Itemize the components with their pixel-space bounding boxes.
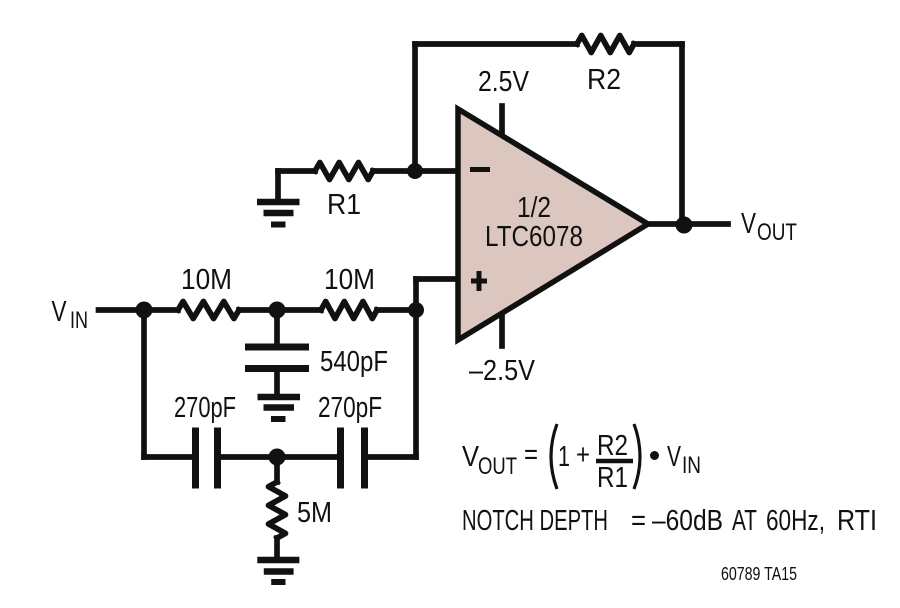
svg-text:270pF: 270pF (318, 392, 382, 424)
node A inverting input junction (407, 163, 423, 179)
ground for 540pF (258, 397, 301, 419)
wire 540pF to ground (274, 372, 280, 394)
node D middle top junction (269, 302, 286, 319)
capacitor C 270pF left plates (196, 428, 218, 489)
svg-text:V: V (667, 441, 681, 473)
node B output junction (676, 217, 693, 234)
label VIN input (52, 296, 89, 334)
wire bottom rail middle segment (221, 454, 337, 460)
wire negative supply pin (499, 312, 505, 346)
formula VOUT = (1 + R2/R1) * VIN (462, 424, 701, 494)
svg-text:V: V (52, 296, 68, 328)
formula right parenthesis (634, 424, 640, 489)
wire R1 left horizontal (278, 168, 315, 174)
resistor 10M second (321, 302, 377, 319)
ground for 5M (257, 560, 299, 582)
wire R1 ground stub (275, 171, 281, 199)
label NOTCH DEPTH (462, 505, 877, 537)
svg-text:10M: 10M (324, 264, 375, 296)
wire VIN node to first 10M (144, 307, 178, 313)
svg-text:10M: 10M (181, 264, 232, 296)
wire bottom node to 5M (274, 457, 280, 482)
wire middle node to second 10M (277, 307, 321, 313)
svg-text:+: + (576, 439, 590, 471)
wire plus branch vertical (413, 279, 419, 457)
wire feedback top horizontal left segment (415, 41, 577, 47)
wire second 10M to plus node (377, 307, 416, 313)
node E noninverting branch junction (408, 302, 424, 318)
label VOUT output (741, 208, 797, 246)
svg-text:540pF: 540pF (320, 346, 388, 378)
svg-text:IN: IN (70, 307, 88, 334)
formula left parenthesis (551, 424, 557, 489)
svg-text:RTI: RTI (837, 505, 877, 537)
svg-text:1: 1 (558, 441, 570, 473)
capacitor C 270pF right plates (341, 428, 365, 489)
resistor R2 (577, 36, 634, 53)
resistor 5M vertical (269, 482, 286, 538)
wire bottom rail left segment (144, 454, 192, 460)
svg-text:60789 TA15: 60789 TA15 (721, 563, 797, 584)
svg-text:R2: R2 (597, 430, 628, 462)
svg-text:5M: 5M (297, 497, 332, 529)
op-amp U1 1/2 LTC6078 (458, 109, 648, 340)
wire 5M to ground (274, 538, 280, 556)
wire left vertical from VIN node (141, 310, 147, 457)
svg-text:V: V (741, 208, 757, 240)
svg-text:IN: IN (682, 452, 701, 479)
resistor 10M first (178, 302, 239, 319)
op-amp plus input symbol (471, 271, 487, 291)
node C VIN junction (136, 302, 153, 319)
wire output to VOUT (648, 221, 728, 227)
svg-text:AT: AT (732, 505, 757, 537)
svg-text:V: V (462, 441, 480, 473)
wire VIN stub (99, 307, 145, 313)
svg-text:–60dB: –60dB (652, 505, 723, 537)
wire R1 to inverting input (373, 168, 458, 174)
svg-text:–2.5V: –2.5V (469, 355, 536, 387)
wire feedback right vertical down to output node (679, 44, 685, 224)
wire first 10M to middle node (239, 307, 277, 313)
capacitor C 540pF plates (245, 347, 309, 369)
svg-text:R1: R1 (327, 189, 361, 221)
svg-text:=: = (524, 439, 538, 471)
svg-text:60Hz,: 60Hz, (766, 505, 825, 537)
svg-text:1/2: 1/2 (517, 192, 551, 224)
wire feedback top horizontal right segment (634, 41, 682, 47)
resistor R1 (315, 163, 373, 180)
svg-text:270pF: 270pF (174, 392, 236, 424)
svg-text:R2: R2 (587, 64, 621, 96)
svg-text:LTC6078: LTC6078 (485, 221, 583, 253)
op-amp minus input symbol (470, 167, 490, 172)
wire positive supply pin (499, 106, 505, 138)
wire middle branch to 540pF (274, 310, 280, 344)
svg-text:OUT: OUT (478, 453, 517, 480)
node F bottom junction (269, 449, 286, 466)
svg-text:=: = (631, 505, 646, 537)
svg-text:NOTCH DEPTH: NOTCH DEPTH (462, 505, 608, 537)
svg-text:R1: R1 (597, 462, 628, 494)
wire feedback left vertical (inverting input to top rail) (412, 44, 418, 171)
svg-text:2.5V: 2.5V (478, 66, 530, 98)
ground for R1 (257, 202, 300, 225)
wire to noninverting input (416, 276, 458, 282)
formula bullet (650, 451, 659, 460)
svg-text:OUT: OUT (757, 219, 797, 246)
wire bottom rail right segment (368, 454, 416, 460)
